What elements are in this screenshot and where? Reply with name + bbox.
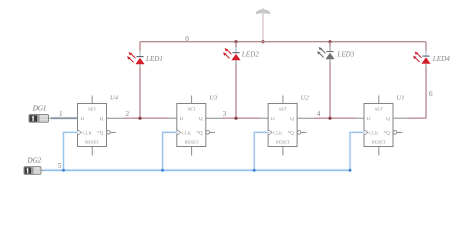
svg-text:DG2: DG2	[27, 157, 42, 165]
svg-text:SET: SET	[375, 106, 383, 111]
D flip-flop U3	[177, 96, 215, 156]
svg-text:CLK: CLK	[273, 130, 283, 135]
junction net 2 / LED	[138, 117, 141, 120]
wire LED1 cathode lead	[139, 42, 141, 52]
junction net 3 / LED	[234, 117, 237, 120]
svg-text:Q: Q	[386, 131, 390, 136]
wire net 2 (U4.Q to U3.D)	[107, 117, 178, 119]
svg-text:LED2: LED2	[241, 51, 259, 59]
LED LED2	[223, 47, 241, 64]
svg-text:SET: SET	[279, 106, 287, 111]
wire net 4 (U2.Q to U1.D)	[297, 117, 364, 119]
svg-text:U1: U1	[397, 94, 405, 101]
junction net 5 / U2 branch	[253, 169, 256, 172]
D flip-flop U4	[78, 96, 116, 156]
junction VCC / net 0	[261, 40, 264, 43]
svg-text:RESET: RESET	[185, 139, 199, 144]
wire LED2 cathode lead	[235, 42, 237, 48]
svg-text:Q: Q	[100, 117, 104, 122]
junction net 5 / U3 branch	[161, 169, 164, 172]
power symbol VCC	[256, 8, 270, 13]
svg-text:Q: Q	[290, 131, 294, 136]
svg-text:LED1: LED1	[145, 55, 163, 63]
svg-text:CLK: CLK	[83, 130, 93, 135]
junction net 5 / DG2 branch	[62, 169, 65, 172]
svg-text:D: D	[80, 117, 84, 122]
svg-text:CLK: CLK	[182, 130, 192, 135]
svg-text:3: 3	[223, 110, 227, 118]
svg-text:DG1: DG1	[32, 105, 47, 113]
svg-text:Q: Q	[386, 117, 390, 122]
svg-text:Q: Q	[100, 131, 104, 136]
svg-text:D: D	[367, 117, 371, 122]
wire net 5 branch to U3.CLK	[163, 132, 178, 170]
svg-text:2: 2	[126, 110, 130, 118]
wire net 5 (clock bus)	[44, 169, 350, 172]
wire net 5 branch to U1.CLK	[350, 132, 365, 170]
net 0 wire (top rail)	[140, 41, 426, 43]
wire net 5 branch to U4.CLK	[64, 132, 79, 170]
digital source DG1	[29, 115, 49, 123]
wire net 1 (DG1 to U4.D)	[51, 117, 78, 120]
svg-text:LED3: LED3	[336, 50, 354, 58]
svg-text:U4: U4	[110, 94, 119, 101]
svg-text:SET: SET	[188, 106, 196, 111]
svg-text:RESET: RESET	[85, 139, 99, 144]
svg-text:CLK: CLK	[369, 130, 379, 135]
svg-text:Q: Q	[199, 117, 203, 122]
junction LED3 / net 0	[328, 40, 331, 43]
svg-text:SET: SET	[88, 106, 96, 111]
D flip-flop U2	[268, 96, 306, 156]
wire net 3 (U3.Q to U2.D)	[206, 117, 269, 119]
svg-text:Q: Q	[290, 117, 294, 122]
svg-text:LED4: LED4	[432, 55, 450, 63]
LED LED4	[413, 51, 431, 68]
junction LED2 / net 0	[234, 40, 237, 43]
svg-text:6: 6	[429, 90, 433, 98]
svg-text:4: 4	[317, 110, 321, 118]
wire net 4 vertical (LED3 anode down)	[329, 63, 331, 118]
digital source DG2	[24, 167, 41, 175]
pin DG2 output	[41, 169, 45, 171]
LED LED3 (off)	[317, 46, 335, 63]
D flip-flop U1	[364, 96, 402, 156]
svg-text:D: D	[180, 117, 184, 122]
wire net 5 branch to U2.CLK	[254, 132, 268, 170]
svg-text:0: 0	[185, 35, 189, 43]
svg-text:U3: U3	[209, 94, 218, 101]
wire net 3 vertical (LED2 anode down)	[235, 64, 237, 118]
wire net 2 vertical (LED1 anode down)	[139, 68, 141, 118]
svg-text:D: D	[271, 117, 275, 122]
wire LED3 cathode lead	[329, 42, 331, 47]
junction net 5 / U1 branch	[349, 169, 352, 172]
LED LED1	[127, 51, 145, 68]
svg-text:RESET: RESET	[372, 139, 386, 144]
svg-text:1: 1	[59, 110, 63, 118]
svg-text:RESET: RESET	[276, 139, 290, 144]
pin DG1 output	[49, 117, 53, 119]
svg-text:U2: U2	[301, 94, 310, 101]
wire LED4 cathode lead	[425, 42, 427, 51]
svg-text:5: 5	[58, 162, 62, 170]
wire VCC to net 0	[262, 14, 264, 42]
junction net 4 / LED	[328, 117, 331, 120]
svg-text:Q: Q	[199, 131, 203, 136]
wire net 6 vertical (LED4 anode down)	[425, 67, 427, 118]
wire net 6 (U1.Q to LED4)	[393, 117, 427, 119]
